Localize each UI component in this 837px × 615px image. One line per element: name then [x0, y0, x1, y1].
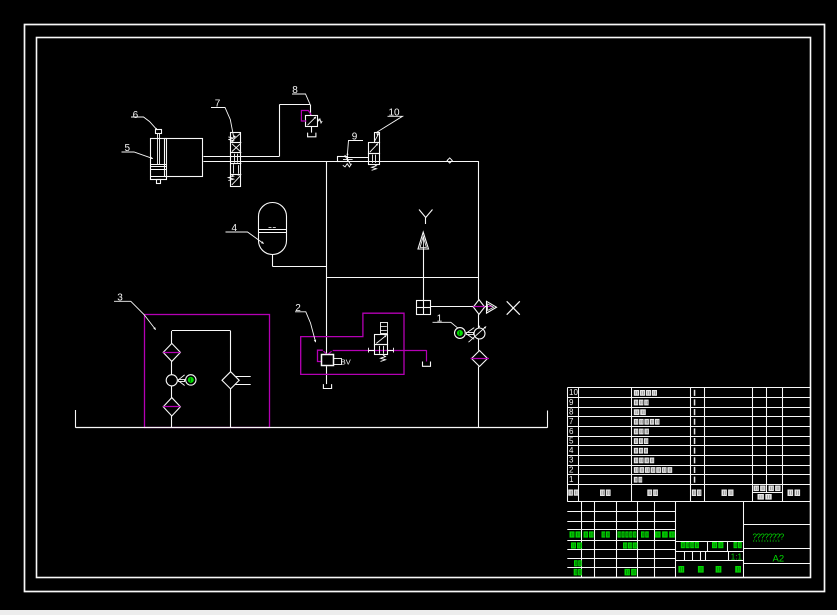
svg-text:8: 8	[569, 407, 574, 416]
svg-text:9: 9	[569, 398, 574, 407]
svg-text:1: 1	[569, 475, 574, 484]
svg-text:3: 3	[569, 456, 574, 465]
svg-text:6: 6	[133, 110, 139, 121]
svg-text:6: 6	[569, 427, 574, 436]
svg-text:5: 5	[569, 436, 574, 445]
svg-text:A2: A2	[773, 553, 785, 564]
svg-text:BV: BV	[341, 358, 351, 367]
svg-text:4: 4	[569, 446, 574, 455]
svg-text:10: 10	[569, 388, 578, 397]
svg-text:1:1: 1:1	[731, 553, 743, 562]
svg-text:2: 2	[569, 465, 574, 474]
svg-text:10: 10	[389, 108, 401, 119]
svg-text:????????: ????????	[753, 532, 785, 541]
svg-text:7: 7	[569, 417, 574, 426]
